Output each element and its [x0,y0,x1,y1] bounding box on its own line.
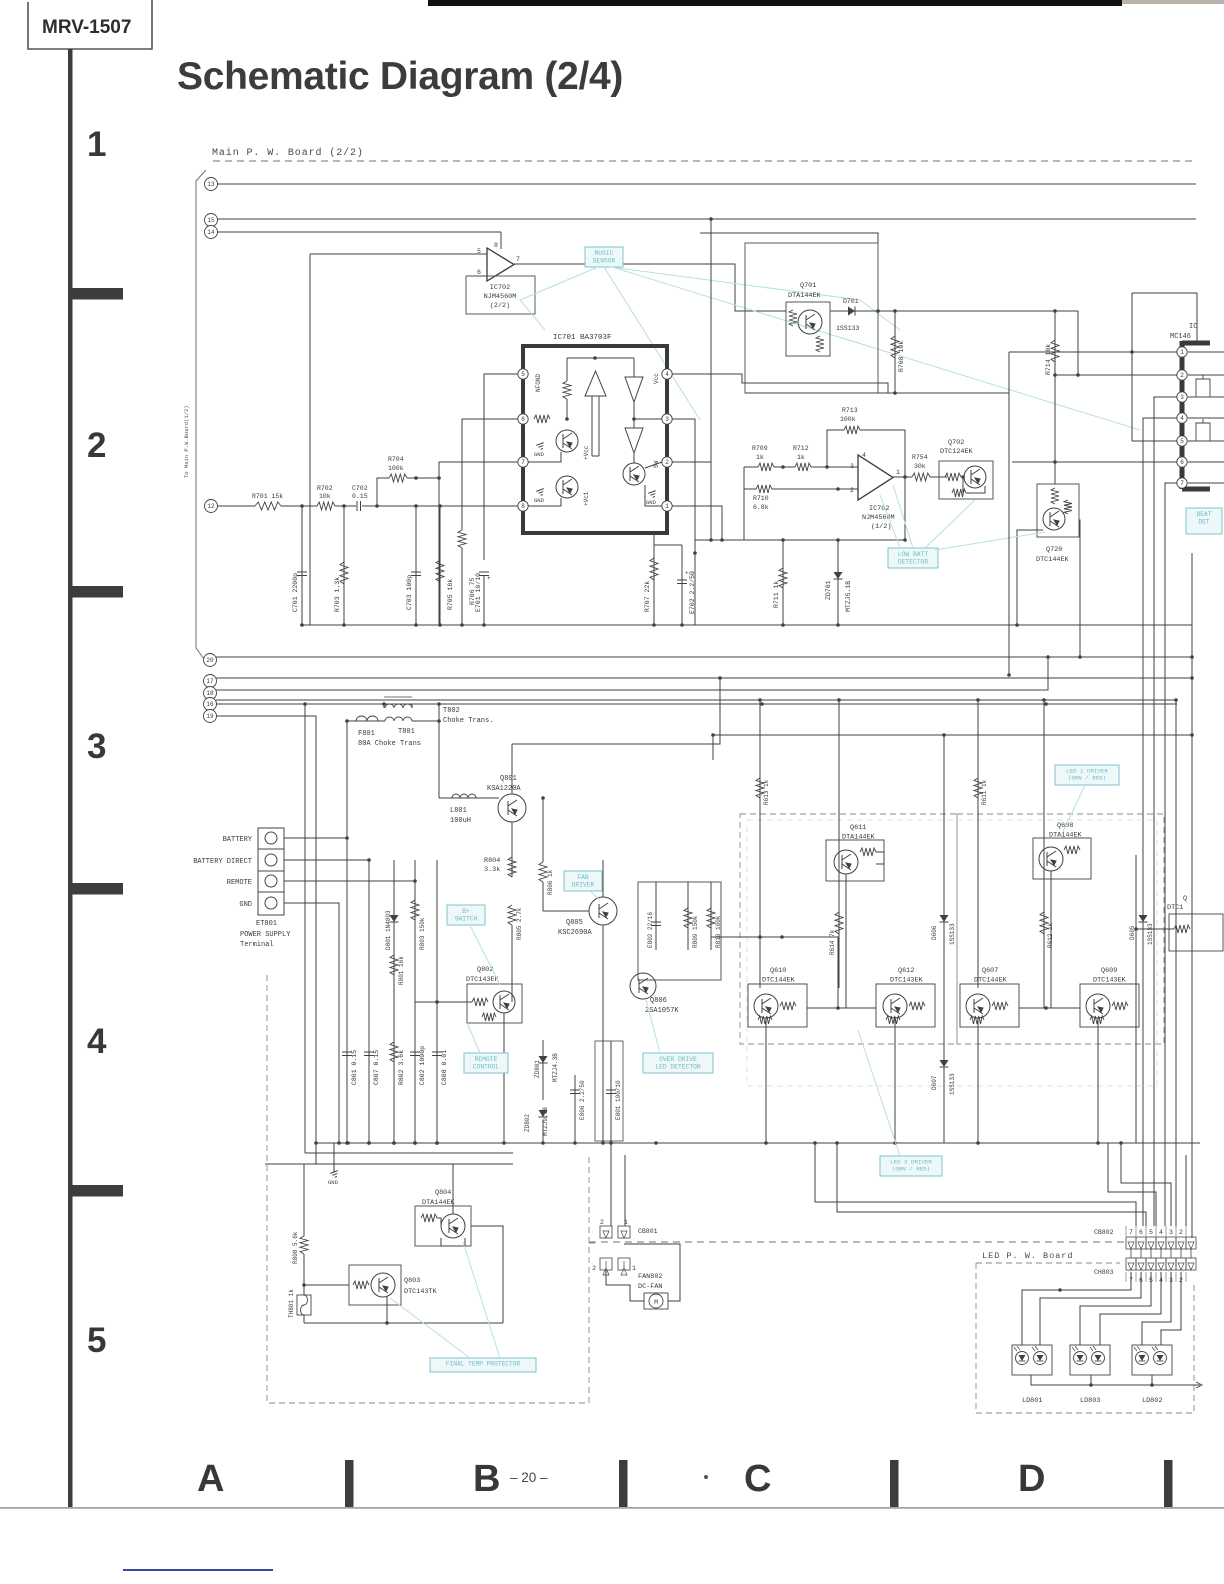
svg-text:F801: F801 [358,730,375,738]
svg-text:R713: R713 [842,407,858,414]
CB802 pin 3 cell [1166,1237,1176,1249]
svg-text:Q806: Q806 [650,997,667,1005]
IC7xx pin 1 [1177,347,1187,357]
svg-text:18: 18 [206,690,214,697]
feedback loop right [860,430,905,477]
junction net18-net20 [1046,655,1050,659]
junction rail R707 [652,623,656,627]
connector pin 14 [205,226,218,239]
svg-text:7: 7 [1129,1229,1133,1236]
label FINAL TEMP PROTECTOR [430,1358,536,1372]
R614 resistor [835,912,843,934]
IC701 body [523,346,667,533]
IC7xx pin 4 stub [1188,417,1224,419]
Q803 emitter drop [386,1297,388,1323]
connector pin 19 [204,710,217,723]
svg-text:1SS133: 1SS133 [1147,923,1154,945]
grid tick bottom [1164,1460,1173,1508]
svg-text:2: 2 [87,426,106,465]
svg-text:REMOTE: REMOTE [475,1056,498,1063]
label LOW BATT DETECTOR [888,548,938,568]
rail y700 [216,699,1177,701]
svg-text:C802 1000p: C802 1000p [419,1046,426,1085]
junction x711-540 [709,538,713,542]
Q702 base resistor [945,473,961,481]
junction y540 ZD701 [836,538,840,542]
junction rail [460,623,464,627]
IC701 pin8 [518,501,528,511]
Q701 emitter resistor [816,336,824,352]
IC701 drop to sw transistor [633,453,635,463]
svg-text:Vcc: Vcc [653,373,660,384]
R713 resistor [844,426,860,434]
E701 tail [483,575,485,625]
CB802 pin 4 arrow [1158,1242,1164,1249]
ET801 cell 3 [258,891,284,893]
junction lower rail [573,1141,577,1145]
wire Q805 base [543,910,589,912]
Q607 transistor [966,994,990,1018]
CB802 pin 1 arrow [1188,1242,1194,1249]
svg-text:3.3k: 3.3k [484,866,500,874]
R806 tail [542,882,544,911]
svg-text:1SS133: 1SS133 [949,923,956,945]
svg-text:1: 1 [632,1265,636,1272]
LD802 led 2 [1152,1346,1167,1365]
svg-text:1k: 1k [756,454,764,461]
junction qrow 1046 [1044,1006,1048,1010]
C802 column [414,860,416,1143]
CH803 pin 2 arrow [1178,1263,1184,1270]
junction D701 net pin2 [1076,373,1080,377]
Q805 emitter down [602,925,604,1143]
Q608 box [1033,838,1091,879]
IC701 amp arrow up [585,371,606,456]
junction led common b [1089,1383,1093,1387]
leader lowbatt-4 [935,532,1045,550]
wire battery direct [284,859,369,861]
Q801 emitter down [511,822,513,877]
wire R704 riser [377,478,389,506]
wire pin5 net [1132,440,1177,442]
wire net16 [216,703,1177,705]
E802 capacitor [651,922,661,926]
junction x1192 y657 [1190,655,1194,659]
svg-text:E701 10/10: E701 10/10 [475,573,482,612]
wire pin2 external [672,462,711,540]
label right edge partial [1186,508,1222,534]
svg-text:CB801: CB801 [638,1228,658,1235]
CH803 number ticks [1126,1272,1186,1282]
fan motor [644,1293,668,1309]
R804 resistor [508,857,516,877]
svg-text:FAN: FAN [577,874,589,881]
junction lower rail [601,1141,605,1145]
top scan bar [428,0,1122,6]
svg-text:Q805: Q805 [566,919,583,927]
wire R754 to Q702 [930,476,947,478]
junction rail C807 [367,1141,371,1145]
R808 tail [303,1254,305,1295]
led common a [1031,1375,1200,1385]
x838 riser [837,937,839,1008]
IC7xx pin 6 [1177,457,1187,467]
leader b+switch [470,925,500,985]
wire net17 [216,677,1192,679]
D701 diode [848,307,855,316]
wire F801 drop [346,721,348,838]
CH803 pin 1 arrow [1188,1263,1194,1270]
svg-text:R714 10k: R714 10k [1045,344,1052,375]
Q607 drop [977,1018,979,1143]
junction R612 net16 [1042,698,1046,702]
junction lower rail [413,1141,417,1145]
svg-text:D607: D607 [931,1075,938,1090]
svg-text:CB802: CB802 [1094,1229,1114,1236]
svg-text:LED P. W. Board: LED P. W. Board [982,1251,1074,1261]
wire battery [284,837,347,839]
junction lower rail [435,1141,439,1145]
wire T801 right [412,720,439,722]
Q801 collector up [511,744,513,794]
R802 resistor [390,1042,398,1062]
Q607 internal resistor 2 [970,1016,984,1024]
IC701 pin2 [662,457,672,467]
junction rail C808 [435,1141,439,1145]
LD801 box [1012,1345,1052,1375]
junction lower rail q [1119,1141,1123,1145]
svg-text:GND: GND [534,497,545,504]
LD802 led 1 [1134,1346,1149,1365]
Q803 base resistor [353,1281,369,1289]
Q613 box [1169,914,1223,951]
led wire p2 [1161,1272,1181,1345]
ET801 terminal outline [258,828,284,915]
fan wire col b [624,1155,626,1226]
R711 column [782,540,784,625]
junction remote x415 [413,879,417,883]
Q720 transistor [1043,508,1065,530]
svg-text:GND: GND [534,451,545,458]
svg-text:C807 0.15: C807 0.15 [373,1050,380,1085]
FAN plug arrow 1 [621,1261,627,1275]
IC701 buffer link [633,358,635,377]
junction bdirect x369 [367,858,371,862]
wire net19 [216,716,316,1143]
wire R704 to pin7node [407,477,439,479]
x713 drop [712,735,714,760]
wire x744 drop [743,489,745,540]
wire pin4 net [1143,418,1177,1226]
junction rail [342,623,346,627]
model label box [28,0,152,49]
svg-text:R709: R709 [752,445,768,452]
IC7xx pin 7 stub [1188,482,1224,484]
led common c [1151,1375,1153,1385]
svg-text:Q607: Q607 [982,967,998,975]
connector through wire [1190,1249,1192,1258]
svg-text:30k: 30k [914,463,926,470]
footer hairline [0,1507,1224,1509]
overdrive group box [638,882,721,980]
Q805 collector up [602,860,604,897]
leader music-3 [610,267,900,330]
connector through wire [1130,1249,1132,1258]
D801 diode [390,915,399,922]
led wire p5 [1080,1272,1151,1345]
Q610 drop [765,1018,767,1143]
IC701 lower mirror transistor [556,476,578,498]
svg-text:Q803: Q803 [404,1277,420,1285]
svg-text:LD803: LD803 [1080,1397,1100,1405]
Q612 internal resistor 2 [886,1016,900,1024]
CH803 pin 7 cell [1126,1258,1136,1270]
Q701 box [786,302,830,356]
T802 windings [385,704,412,721]
svg-text:MUSIC: MUSIC [595,250,614,257]
E802 column [655,882,657,950]
Q607 internal resistor 1 [992,1002,1008,1010]
svg-text:– 20 –: – 20 – [510,1470,548,1485]
Q804 collector down [441,1238,465,1246]
R809 column [687,882,689,950]
IC7xx pin 5 [1177,436,1187,446]
Q804 base link [437,1218,441,1226]
Q608 collector down [1050,871,1052,1008]
IC701 res tail [566,399,568,419]
ET801 cell 2 [258,870,284,872]
wire gnd terminal [284,903,339,1143]
svg-text:3: 3 [850,463,854,470]
wire x695 lower [694,553,696,625]
E801 column [610,1041,612,1143]
Q607 box [960,984,1019,1027]
svg-text:R614 7k: R614 7k [829,929,836,955]
svg-text:NJM4560M: NJM4560M [484,293,517,301]
svg-text:Q720: Q720 [1046,546,1062,554]
junction feedback [825,465,829,469]
CH803 pin 1 cell [1186,1258,1196,1270]
junction Q803 emitter [385,1321,389,1325]
C802 capacitor [410,1052,420,1056]
led wire p7 [1022,1272,1131,1345]
svg-text:1k: 1k [797,454,805,461]
svg-text:(2/2): (2/2) [490,302,510,310]
Q806 transistor [630,973,656,999]
svg-text:KSC2690A: KSC2690A [558,929,592,937]
main board top dashed border [213,160,1196,162]
junction R709 right [781,465,785,469]
fan wire left [606,1270,644,1301]
wire opamp out to Q701 [514,264,786,311]
junction led common c [1150,1383,1154,1387]
D607 diode [940,1060,949,1067]
feedback loop R713 [827,430,844,467]
IC7xx body bar [1182,341,1210,489]
gnd drop [333,1143,335,1172]
connector through wire [1140,1249,1142,1258]
svg-text:DTC144EK: DTC144EK [762,977,796,985]
Q803 transistor [371,1273,395,1297]
wire pin1 external [672,506,722,540]
x1176 column [1175,700,1177,1142]
IC7xx pin 4 [1177,413,1187,423]
led wire p4 [1100,1272,1161,1345]
connector pin 20 [204,654,217,667]
IC701 pin1 [662,501,672,511]
Q720 shunt resistor [1064,500,1072,514]
label LED3 DRIVER [880,1156,942,1176]
junction Q720 rail [1015,623,1019,627]
wire net12 segment b [281,505,317,507]
label LED DRIVER GRN RED [1055,765,1119,785]
svg-text:D605: D605 [1129,925,1136,940]
wire net15 [217,218,1196,220]
svg-text:2: 2 [850,487,854,494]
junction lower rail [654,1141,658,1145]
wire top right corner [1132,293,1197,341]
svg-text:R802 3.6k: R802 3.6k [398,1050,405,1085]
R708 resistor [891,336,899,358]
Q804 box [415,1206,471,1246]
CB801 cell 2 [600,1226,612,1238]
footer dot [704,1475,708,1479]
svg-text:R710: R710 [753,495,769,502]
svg-text:FAN802: FAN802 [638,1273,662,1281]
IC701 res drop [566,358,568,381]
connector pin 16 [204,698,217,711]
bottom-left blue rule [123,1569,273,1571]
junction lower rail q [764,1141,768,1145]
IC7xx pin2-3 external part [1196,375,1210,397]
R611 resistor [974,778,982,798]
svg-text:E806 2.2/50: E806 2.2/50 [579,1080,586,1120]
IC701 top internal rail [567,357,634,359]
E806 column [574,1075,576,1143]
svg-text:1: 1 [896,469,900,476]
Q702 transistor [964,466,986,488]
Q611 collector down [845,874,847,1008]
svg-text:DTC143EK: DTC143EK [890,977,924,985]
Q702 base dot [961,475,965,479]
wire pin2 net [1055,374,1177,376]
E701 capacitor [479,572,489,576]
svg-text:NFGND: NFGND [535,374,542,392]
R808 column [303,1164,305,1236]
grid tick left [71,883,123,895]
D605 diode [1139,915,1148,922]
C703 column [415,506,417,625]
svg-text:POWER SUPPLY: POWER SUPPLY [240,931,291,939]
junction x1192 y735 [1190,733,1194,737]
junction net16 x305 [303,702,307,706]
svg-text:R703 1.3k: R703 1.3k [334,577,341,612]
svg-text:T801: T801 [398,728,415,736]
R802 column [393,860,395,1143]
R612 column [1043,700,1045,1008]
CB802 pin 2 arrow [1178,1242,1184,1249]
svg-text:4: 4 [862,452,866,459]
Q611 transistor [834,850,858,874]
junction C703 top [414,504,418,508]
R805 resistor [508,905,516,925]
wire remote [284,880,415,882]
IC701 upper mirror transistor [556,430,578,452]
FAN plug arrow 2 [603,1261,609,1275]
CH803 pin 4 cell [1156,1258,1166,1270]
grid tick bottom [345,1460,354,1508]
junction net16 x439 [437,702,441,706]
svg-text:CONTROL: CONTROL [473,1063,500,1070]
R701 resistor [255,502,281,510]
svg-text:(1/2): (1/2) [871,523,891,531]
IC701 pin5 [518,369,528,379]
svg-text:DTC144EK: DTC144EK [974,977,1008,985]
CB802 pin 7 cell [1126,1237,1136,1249]
svg-text:2: 2 [592,1265,596,1272]
svg-text:R705 18k: R705 18k [447,579,454,610]
junction bus a [813,1141,817,1145]
R706 resistor [458,530,466,548]
svg-text:C: C [744,1458,771,1500]
svg-text:L801: L801 [450,807,467,815]
Q702 shunt resistor [952,489,966,497]
wire led bus b [837,1143,1146,1226]
CB801 arrow 1 [621,1231,627,1238]
junction net15-x711 [709,217,713,221]
R705 resistor [436,560,444,582]
svg-text:4: 4 [87,1022,107,1061]
junction R704 right [414,476,418,480]
led driver sub-board right [957,814,1164,1044]
R703 resistor [340,562,348,584]
D606 diode [940,915,949,922]
wire net18 [216,657,1048,690]
svg-text:1SS133: 1SS133 [836,325,860,332]
ET801 cell 4 [0,0,1,1]
CB802 pin 5 arrow [1148,1242,1154,1249]
Q612 drop [894,1018,896,1143]
ground symbol main [328,1171,340,1186]
wire pin3 external [672,419,695,553]
svg-text:Q801: Q801 [500,775,517,783]
svg-text:DC-FAN: DC-FAN [638,1283,662,1291]
junction rail [438,623,442,627]
IC7xx pin 1 stub [1188,351,1224,353]
R710 resistor [756,485,772,493]
label OVER DRIVE LED DETECTOR [643,1053,713,1073]
R714 column [1054,311,1056,484]
wire y1323 [304,1322,503,1324]
svg-text:GND: GND [646,499,657,506]
wire net20 [216,656,1192,658]
svg-text:6: 6 [521,416,525,423]
svg-text:3: 3 [1169,1229,1173,1236]
junction lower rail [609,1141,613,1145]
Q611 internal resistor 1 [860,848,876,856]
ET801 terminal circle 1 [265,832,277,844]
IC7xx pin 7 [1177,478,1187,488]
junction y937 x760 [758,935,762,939]
ground rail lower2 [305,1152,513,1154]
Q702 emitter link [966,486,985,493]
wire R707 link [654,544,682,546]
main board left border [196,170,206,659]
junction lower rail [392,1141,396,1145]
wire pin1 net [1009,351,1177,353]
junction rail C802 [413,1141,417,1145]
svg-text:Choke Trans.: Choke Trans. [443,717,493,725]
